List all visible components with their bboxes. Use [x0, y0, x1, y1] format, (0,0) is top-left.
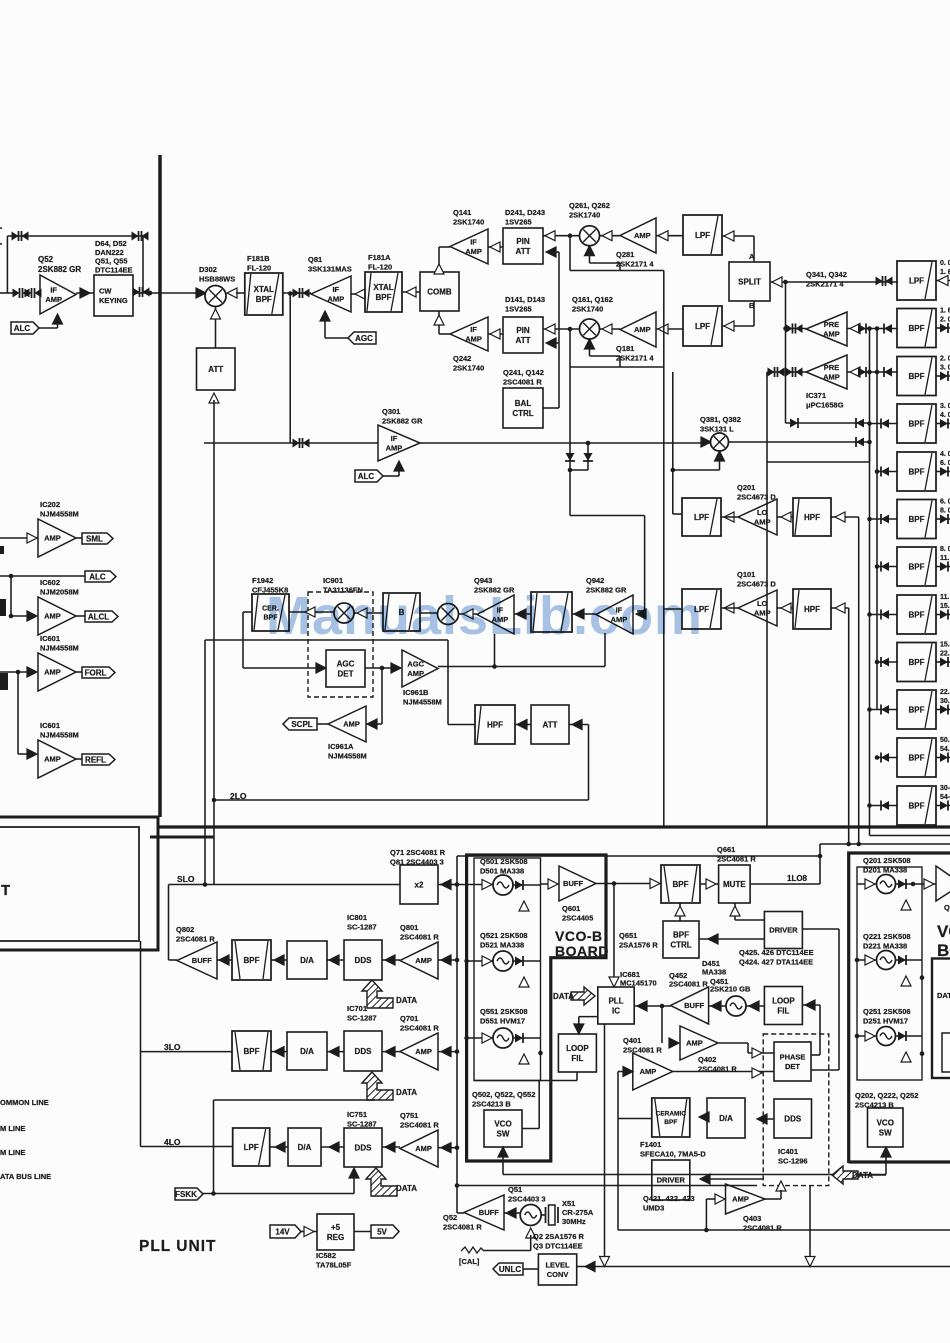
label Q301 [382, 407, 423, 426]
svg-text:ATT: ATT [208, 365, 223, 374]
arrow [602, 324, 612, 334]
wire [699, 1116, 707, 1118]
label T [1, 882, 10, 899]
svg-text:Q661: Q661 [717, 845, 735, 854]
svg-text:DDS: DDS [355, 1143, 373, 1152]
svg-text:LEVEL: LEVEL [545, 1260, 570, 1269]
label freq row6 [940, 499, 950, 515]
svg-text:AMP: AMP [386, 443, 403, 452]
label freq row8 [940, 594, 950, 610]
svg-text:SC-1287: SC-1287 [347, 923, 377, 932]
svg-text:50.: 50. [940, 737, 950, 744]
diode in row12 [870, 805, 898, 807]
diode out row9 [936, 661, 950, 663]
svg-text:AMP: AMP [754, 608, 771, 617]
xtal filter F181B [245, 273, 283, 315]
arrow into att [209, 393, 219, 403]
label Q402 [698, 1055, 737, 1074]
wire tx routing lower [569, 329, 571, 443]
svg-text:DET: DET [338, 669, 354, 678]
wire [217, 959, 232, 961]
arrow [546, 247, 556, 257]
label B [749, 301, 755, 310]
dds mid box [774, 1099, 812, 1138]
svg-text:ALC: ALC [358, 472, 375, 481]
svg-text:DTC114EE: DTC114EE [95, 265, 133, 274]
vco-a sub box [932, 959, 950, 1079]
svg-text:Q81 2SC4403 3: Q81 2SC4403 3 [390, 858, 444, 867]
svg-text:SC-1296: SC-1296 [778, 1157, 808, 1166]
label Q661 [717, 845, 756, 864]
wire [831, 607, 849, 609]
connector pair [876, 276, 893, 286]
svg-text:F181B: F181B [247, 254, 270, 263]
label IC961B [403, 688, 442, 707]
svg-text:LPF: LPF [694, 513, 709, 522]
arrow [316, 663, 326, 673]
amp Q181 [620, 312, 656, 347]
diode out row6 [936, 518, 950, 520]
wire [488, 333, 503, 335]
svg-text:SCPL: SCPL [291, 720, 312, 729]
arrow [637, 1001, 647, 1011]
label Q201v [863, 856, 911, 875]
xtal filter F181A [365, 272, 402, 312]
x2 box [400, 865, 438, 904]
svg-text:BPF: BPF [909, 562, 925, 571]
label IC371 [806, 391, 844, 410]
svg-text:SW: SW [879, 1128, 892, 1137]
amp Q242 IF AMP [450, 317, 488, 351]
driver mid box [652, 1160, 690, 1200]
svg-text:CERAMIC: CERAMIC [656, 1111, 687, 1118]
wire buff out [596, 883, 661, 885]
svg-text:Q943: Q943 [474, 576, 492, 585]
label freq row2 [940, 308, 950, 324]
divider stub [150, 836, 214, 839]
filter BPF row7 [897, 547, 936, 586]
mixer D302 [196, 288, 206, 298]
svg-text:AMP: AMP [407, 669, 424, 678]
svg-text:2SK210 GB: 2SK210 GB [710, 985, 751, 994]
wire [133, 292, 196, 294]
svg-text:BPF: BPF [909, 515, 925, 524]
svg-text:4. 0: 4. 0 [940, 451, 950, 458]
wire [168, 885, 170, 961]
svg-text:DATA: DATA [396, 1184, 417, 1193]
svg-text:DAN222: DAN222 [95, 248, 124, 257]
reg box [317, 1214, 354, 1250]
svg-text:ATT: ATT [516, 247, 531, 256]
label F181A [368, 253, 392, 272]
svg-text:2SK1740: 2SK1740 [453, 364, 484, 373]
osc Q521 [467, 960, 493, 962]
amp Q402 [633, 1053, 673, 1090]
arrow [498, 1147, 508, 1157]
label Q451 [710, 977, 751, 994]
svg-text:IC582: IC582 [316, 1251, 336, 1260]
filter BPF row2 [897, 309, 936, 348]
label D302 [199, 265, 235, 284]
svg-text:0. 0: 0. 0 [940, 260, 950, 267]
label Q52b [443, 1213, 482, 1232]
label DATA [396, 1088, 417, 1097]
wire lpf to split [722, 235, 754, 237]
connector pair [133, 287, 150, 297]
svg-text:LO: LO [757, 508, 768, 517]
arrow into mixer [227, 288, 237, 298]
svg-text:HSB88WS: HSB88WS [199, 275, 235, 284]
svg-text:ManualsLib.com: ManualsLib.com [266, 586, 703, 646]
wire long bottom [618, 1229, 950, 1231]
dds 3lo [344, 1031, 382, 1071]
svg-text:IC202: IC202 [40, 500, 60, 509]
wire [283, 292, 311, 294]
wire [777, 607, 793, 609]
lpf box B [683, 306, 722, 346]
svg-text:BPF: BPF [244, 1047, 260, 1056]
svg-text:AGC: AGC [337, 659, 355, 668]
arrow [274, 955, 284, 965]
loop fil A box [764, 987, 802, 1025]
driver box [764, 912, 802, 949]
filter BPF row6 [897, 500, 936, 539]
label DATA [553, 992, 574, 1001]
arrow [385, 1047, 395, 1057]
svg-text:Q2 2SA1576 R: Q2 2SA1576 R [533, 1232, 584, 1241]
svg-text:IC401: IC401 [778, 1147, 798, 1156]
svg-text:VCO-B: VCO-B [555, 928, 603, 944]
label X51 [562, 1199, 594, 1226]
wire [777, 516, 793, 518]
vco-b inner box [474, 858, 541, 1081]
wire [699, 938, 764, 940]
preamp row Q341 [786, 328, 807, 330]
svg-text:2SC4081 R: 2SC4081 R [400, 933, 439, 942]
osc Q451 [726, 996, 746, 1016]
svg-text:NJM2058M: NJM2058M [40, 588, 79, 597]
svg-text:6. 0: 6. 0 [940, 460, 950, 467]
label IC961A [328, 742, 367, 761]
vco-b board box [467, 855, 606, 1161]
node [920, 1051, 925, 1056]
svg-text:Q81: Q81 [308, 255, 322, 264]
wire [321, 1146, 344, 1148]
wire [673, 1071, 774, 1073]
svg-text:IF: IF [470, 237, 477, 246]
label Q52 [38, 255, 81, 274]
svg-text:COMB: COMB [427, 287, 452, 296]
svg-text:2. 0: 2. 0 [940, 356, 950, 363]
hpf lo1 [793, 498, 831, 536]
svg-text:AGC: AGC [407, 659, 424, 668]
label freq row12 [940, 785, 950, 801]
wire top bypass [7, 235, 143, 237]
label Q71 Q81 [390, 848, 446, 867]
bpf ctrl box [663, 921, 699, 958]
svg-text:AMP: AMP [415, 956, 432, 965]
wire 2LO att [569, 724, 589, 726]
svg-text:SC-1287: SC-1287 [347, 1014, 377, 1023]
arrow [275, 1142, 285, 1152]
flag ALC out [85, 571, 116, 582]
svg-text:LOOP: LOOP [772, 996, 795, 1005]
arrow [708, 934, 718, 944]
svg-text:BUFF: BUFF [479, 1208, 499, 1217]
left unit box outer [0, 817, 158, 950]
svg-text:30-: 30- [940, 785, 950, 792]
arrow [517, 720, 527, 730]
svg-text:2SC4673 D: 2SC4673 D [737, 580, 776, 589]
amp Q942 IF AMP [596, 595, 633, 634]
arrow mixer LO [715, 451, 725, 461]
svg-text:Q141: Q141 [453, 208, 471, 217]
diode out row5 [936, 471, 950, 473]
svg-text:AMP: AMP [44, 668, 61, 677]
label Q241 Q142 [503, 368, 544, 387]
arrow [385, 955, 395, 965]
label Q281 [616, 250, 654, 269]
svg-text:VCO: VCO [494, 1119, 511, 1128]
amp Q281 [620, 218, 656, 253]
label IC751 [347, 1110, 377, 1129]
left edge connector stub [0, 292, 16, 294]
svg-text:LOOP: LOOP [566, 1044, 589, 1053]
diode in row4 [870, 423, 898, 425]
svg-text:Q181: Q181 [616, 344, 634, 353]
cw keying box [94, 275, 133, 316]
wire [802, 1004, 820, 1006]
svg-text:Q71 2SC4081 R: Q71 2SC4081 R [390, 848, 446, 857]
svg-text:2SK1740: 2SK1740 [569, 211, 600, 220]
mixer Q261 Q262 [580, 226, 600, 246]
wire pinatt to mixer [543, 235, 580, 237]
svg-text:BPF: BPF [909, 658, 925, 667]
label IC202 [40, 500, 79, 519]
amp Q401 [680, 1026, 718, 1060]
label DAT [937, 991, 950, 1000]
amp Q452 BUFF [671, 987, 709, 1024]
diode in row6 [870, 518, 898, 520]
cal squiggle [461, 1247, 484, 1253]
svg-text:22.: 22. [940, 651, 950, 658]
arrow [805, 1000, 815, 1010]
wire [402, 291, 420, 293]
label Q751 [400, 1111, 439, 1130]
wire [271, 959, 287, 961]
label F181B [247, 254, 271, 273]
svg-text:AMP: AMP [634, 231, 651, 240]
arrow [80, 288, 90, 298]
wire slo vertical [213, 800, 215, 885]
flag ALC [355, 470, 383, 482]
svg-text:NJM4558M: NJM4558M [403, 698, 442, 707]
wire [270, 1146, 288, 1148]
wire ALC row [0, 575, 85, 577]
label Q943 [474, 576, 515, 595]
arrow [355, 289, 365, 299]
arrow [27, 611, 37, 621]
label A [749, 252, 755, 261]
svg-text:2SC4081 R: 2SC4081 R [669, 980, 708, 989]
diode out row4 [936, 423, 950, 425]
svg-text:X51: X51 [562, 1199, 575, 1208]
svg-text:PIN: PIN [516, 237, 530, 246]
att mid [531, 705, 569, 744]
label D451 [702, 959, 726, 977]
label freq row1 [940, 260, 950, 276]
diode in row9 [877, 661, 897, 663]
svg-text:LPF: LPF [244, 1143, 259, 1152]
label q [944, 903, 950, 912]
wire [700, 883, 719, 885]
svg-text:D521 MA338: D521 MA338 [480, 941, 524, 950]
svg-text:Q251 2SK506: Q251 2SK506 [863, 1007, 911, 1016]
svg-text:2SK882 GR: 2SK882 GR [382, 417, 423, 426]
arrow mute drv [734, 903, 736, 920]
wire [0, 671, 28, 673]
arrow drop1 [600, 1257, 610, 1267]
label Q251 [863, 1007, 911, 1026]
label 1LO8 [787, 874, 808, 883]
svg-text:HPF: HPF [804, 605, 820, 614]
diode in row8 [870, 614, 898, 616]
svg-text:AMP: AMP [45, 295, 62, 304]
split box [729, 262, 770, 301]
wire [17, 672, 19, 754]
wire [76, 292, 94, 294]
wire [656, 328, 683, 330]
arrow [585, 1262, 595, 1272]
svg-text:AMP: AMP [634, 325, 651, 334]
arrow [574, 1024, 584, 1034]
arrow [636, 609, 646, 619]
svg-text:AMP: AMP [732, 1195, 749, 1204]
wire vcosw b [522, 1128, 539, 1130]
small box [942, 1033, 950, 1072]
svg-text:DDS: DDS [355, 1047, 373, 1056]
node [288, 291, 293, 296]
wire [634, 1005, 670, 1007]
svg-text:ALCL: ALCL [88, 612, 109, 621]
label D241 [505, 208, 545, 227]
arrow [320, 311, 330, 321]
svg-text:FIL: FIL [777, 1006, 789, 1015]
label IC801 [347, 913, 377, 932]
svg-text:Q402: Q402 [698, 1055, 716, 1064]
wire [504, 1212, 520, 1214]
label DATA [852, 1171, 873, 1180]
wire [847, 371, 897, 373]
mixer2 ic901 [438, 604, 459, 625]
att box [197, 348, 236, 390]
vco-a board box [849, 853, 950, 1163]
svg-text:AMP: AMP [465, 247, 482, 256]
wire [515, 724, 531, 726]
connector J1 [12, 231, 29, 241]
svg-text:AMP: AMP [327, 294, 344, 303]
svg-text:PRE: PRE [824, 320, 839, 329]
svg-text:F181A: F181A [368, 253, 391, 262]
svg-text:Q202, Q222, Q252: Q202, Q222, Q252 [855, 1091, 918, 1100]
svg-text:IC901: IC901 [323, 576, 343, 585]
label Q201 [737, 483, 776, 502]
node [783, 280, 788, 285]
flag SCPL [317, 723, 328, 725]
arrow [609, 977, 619, 987]
svg-text:REG: REG [327, 1233, 344, 1242]
amp IC961A [328, 706, 366, 742]
wire vertical 2LO branch [204, 640, 206, 885]
svg-text:2SC4213 B: 2SC4213 B [472, 1100, 511, 1109]
filter BPF row11 [897, 738, 936, 777]
arrow [391, 663, 401, 673]
ceramic bpf [652, 1098, 690, 1137]
svg-text:F1401: F1401 [640, 1140, 661, 1149]
svg-text:2SK1740: 2SK1740 [572, 305, 603, 314]
flag ALC input [11, 322, 39, 334]
arrow [441, 880, 451, 890]
svg-text:BPF: BPF [909, 324, 925, 333]
wire [618, 1118, 652, 1120]
wire [709, 1005, 726, 1007]
lpf box A [683, 215, 722, 255]
wire unlc long [577, 1266, 950, 1268]
svg-text:BPF: BPF [673, 930, 689, 939]
svg-text:Q651: Q651 [619, 931, 637, 940]
svg-text:Q502, Q522, Q552: Q502, Q522, Q552 [472, 1090, 535, 1099]
phase det box [774, 1042, 811, 1081]
svg-text:2. 0: 2. 0 [940, 317, 950, 324]
svg-text:A: A [749, 252, 755, 261]
mixer ic901 [334, 603, 354, 623]
wire [523, 1268, 538, 1270]
wire [604, 1024, 606, 1256]
svg-text:D302: D302 [199, 265, 217, 274]
svg-text:2SC4081 R: 2SC4081 R [743, 1224, 782, 1233]
label IC601a [40, 634, 79, 653]
arrow [490, 329, 500, 339]
amp Q943 IF AMP [477, 595, 514, 634]
amp Q101 LO AMP [738, 590, 777, 626]
amp AGC AMP IC961B [402, 650, 438, 687]
wire [618, 1071, 623, 1073]
arrow [329, 955, 339, 965]
connector pair [293, 288, 310, 298]
wire [858, 1174, 886, 1176]
label IC901 [323, 576, 363, 595]
arrow [881, 1147, 891, 1157]
svg-text:SML: SML [86, 534, 103, 543]
lpf lo2 [682, 589, 721, 629]
svg-text:NJM4558M: NJM4558M [40, 510, 79, 519]
comb box [420, 272, 459, 311]
svg-text:IF: IF [50, 285, 57, 294]
bus vertical 2 [876, 328, 878, 710]
label Q401 [623, 1036, 662, 1055]
label Q551 [480, 1007, 528, 1026]
arrow dds in [776, 1181, 786, 1191]
node [538, 1051, 543, 1056]
wire [438, 884, 457, 886]
agc det box [326, 650, 365, 687]
svg-text:ALC: ALC [14, 324, 31, 333]
wire [438, 1051, 457, 1053]
svg-text:IF: IF [470, 325, 477, 334]
svg-text:54.: 54. [940, 746, 950, 753]
wire [382, 1146, 400, 1148]
svg-text:Q161, Q162: Q161, Q162 [572, 295, 613, 304]
